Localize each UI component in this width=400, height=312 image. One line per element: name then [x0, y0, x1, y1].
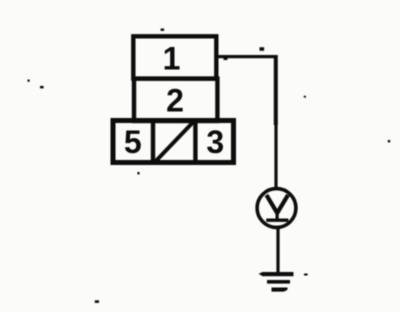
lamp V stem: [276, 211, 279, 220]
svg-text:5: 5: [124, 124, 142, 160]
row divider left: [151, 121, 155, 163]
svg-text:3: 3: [206, 124, 224, 160]
diagonal slash: [155, 121, 194, 162]
ground bar 2: [267, 280, 290, 284]
svg-text:2: 2: [166, 82, 184, 118]
wire vertical lower segment: [274, 120, 277, 188]
connector box 1: [133, 36, 216, 78]
connector box 2: [134, 79, 217, 121]
wire horizontal from pin 1: [215, 55, 277, 58]
lamp V glyph: [266, 195, 288, 213]
ground bar 1 left tick: [259, 272, 263, 276]
lamp V base bar: [266, 219, 288, 222]
row divider right: [193, 121, 197, 163]
wire vertical down to lamp: [274, 55, 278, 125]
lamp V1 circle: [257, 189, 296, 228]
wire vertical to ground: [276, 228, 279, 273]
ground bar 3: [272, 288, 288, 292]
connector row 5-3: [113, 121, 234, 163]
svg-text:1: 1: [163, 41, 181, 77]
ground bar 1: [262, 272, 294, 276]
